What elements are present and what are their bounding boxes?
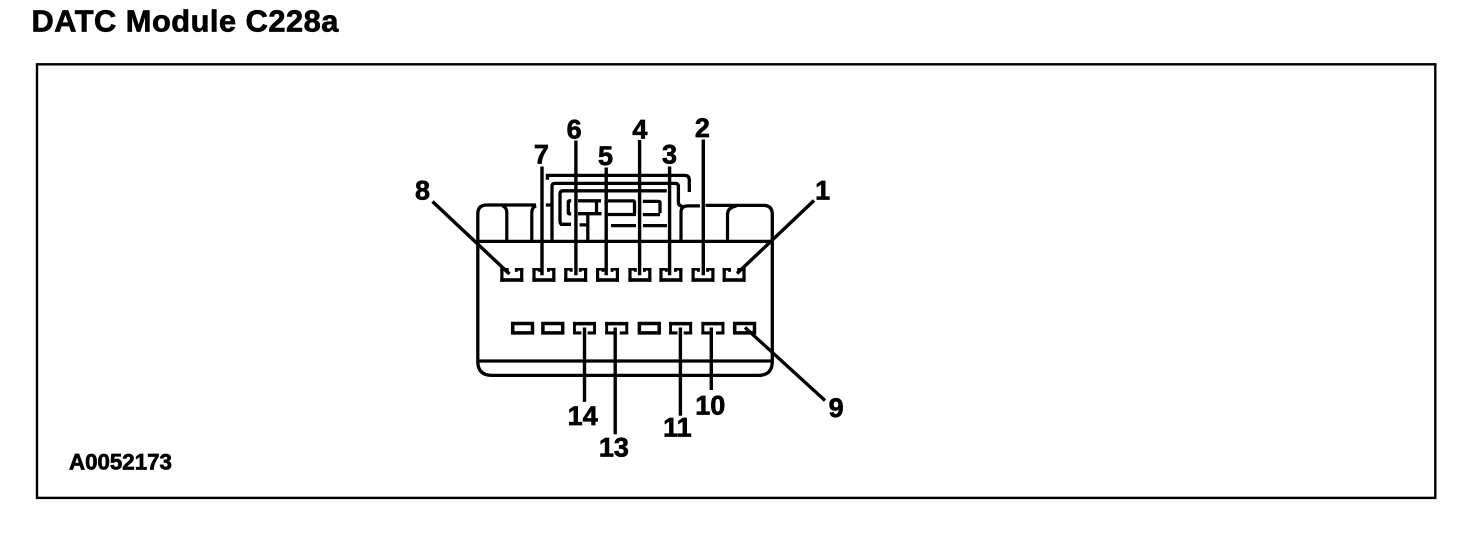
svg-text:11: 11 — [663, 413, 692, 443]
leader line 4 — [638, 140, 641, 275]
pin 11 cavity — [669, 322, 692, 335]
latch rect R2 — [552, 183, 682, 240]
latch outer rect R1 — [547, 175, 689, 192]
leader line 9 (diagonal) — [745, 328, 825, 401]
pin 6 cavity — [564, 268, 587, 282]
pin 10 cavity — [701, 322, 724, 335]
leader line 3 — [668, 167, 671, 276]
svg-text:5: 5 — [598, 141, 613, 171]
svg-text:DATC Module C228a: DATC Module C228a — [32, 4, 340, 39]
latch window W1 — [568, 201, 571, 214]
connector shoulder line — [479, 240, 771, 243]
right dome A edge — [681, 206, 700, 241]
leader line 7 — [540, 167, 543, 276]
border frame — [37, 64, 1435, 498]
latch lower lines — [611, 224, 667, 227]
latch window W3 — [608, 201, 636, 215]
leader line 6 — [574, 141, 577, 276]
pin 13 cavity — [605, 322, 628, 335]
pin 7 cavity — [532, 268, 555, 282]
leader line 14 — [583, 328, 586, 402]
leader line 8 (diagonal) — [433, 202, 510, 275]
top edge stub left of latch — [546, 203, 552, 206]
latch rect R3 — [560, 191, 667, 225]
svg-text:9: 9 — [829, 393, 844, 423]
latch window W4 — [643, 201, 660, 214]
pin 8 cavity — [500, 268, 523, 282]
pin 9 cavity — [735, 324, 755, 333]
right dome B left edge — [728, 206, 737, 241]
svg-text:13: 13 — [599, 432, 629, 462]
pin 5 cavity — [596, 268, 619, 282]
pin 3 cavity — [659, 268, 682, 282]
pin 1 cavity — [723, 268, 746, 282]
connector body outline — [478, 205, 773, 375]
pin 2 cavity — [692, 268, 715, 282]
leader line 13 — [614, 328, 617, 435]
svg-text:8: 8 — [415, 176, 430, 206]
svg-text:1: 1 — [815, 176, 830, 206]
svg-text:4: 4 — [632, 115, 647, 145]
leader line 2 — [702, 140, 705, 276]
svg-text:2: 2 — [695, 113, 710, 143]
svg-text:3: 3 — [662, 140, 677, 170]
leader line 10 — [710, 328, 713, 391]
left valley right edge — [532, 206, 536, 241]
bottom cavity b1 — [513, 324, 533, 333]
latch window W2 — [578, 201, 602, 214]
leader line 11 — [679, 328, 682, 416]
leader line 1 (diagonal) — [737, 201, 814, 274]
svg-text:10: 10 — [695, 391, 725, 421]
bottom cavity b2 — [543, 324, 563, 333]
pin 4 cavity — [628, 268, 651, 282]
leader line 5 — [605, 168, 608, 276]
pin 14 cavity — [573, 322, 596, 335]
svg-text:7: 7 — [534, 140, 549, 170]
left dome inner edge — [502, 206, 507, 241]
svg-text:A0052173: A0052173 — [69, 449, 172, 474]
svg-text:14: 14 — [568, 401, 598, 431]
connector lower lip line — [479, 359, 771, 362]
svg-text:6: 6 — [567, 115, 582, 145]
latch T stub below W2 — [580, 214, 588, 241]
bottom cavity b5 — [639, 324, 659, 333]
